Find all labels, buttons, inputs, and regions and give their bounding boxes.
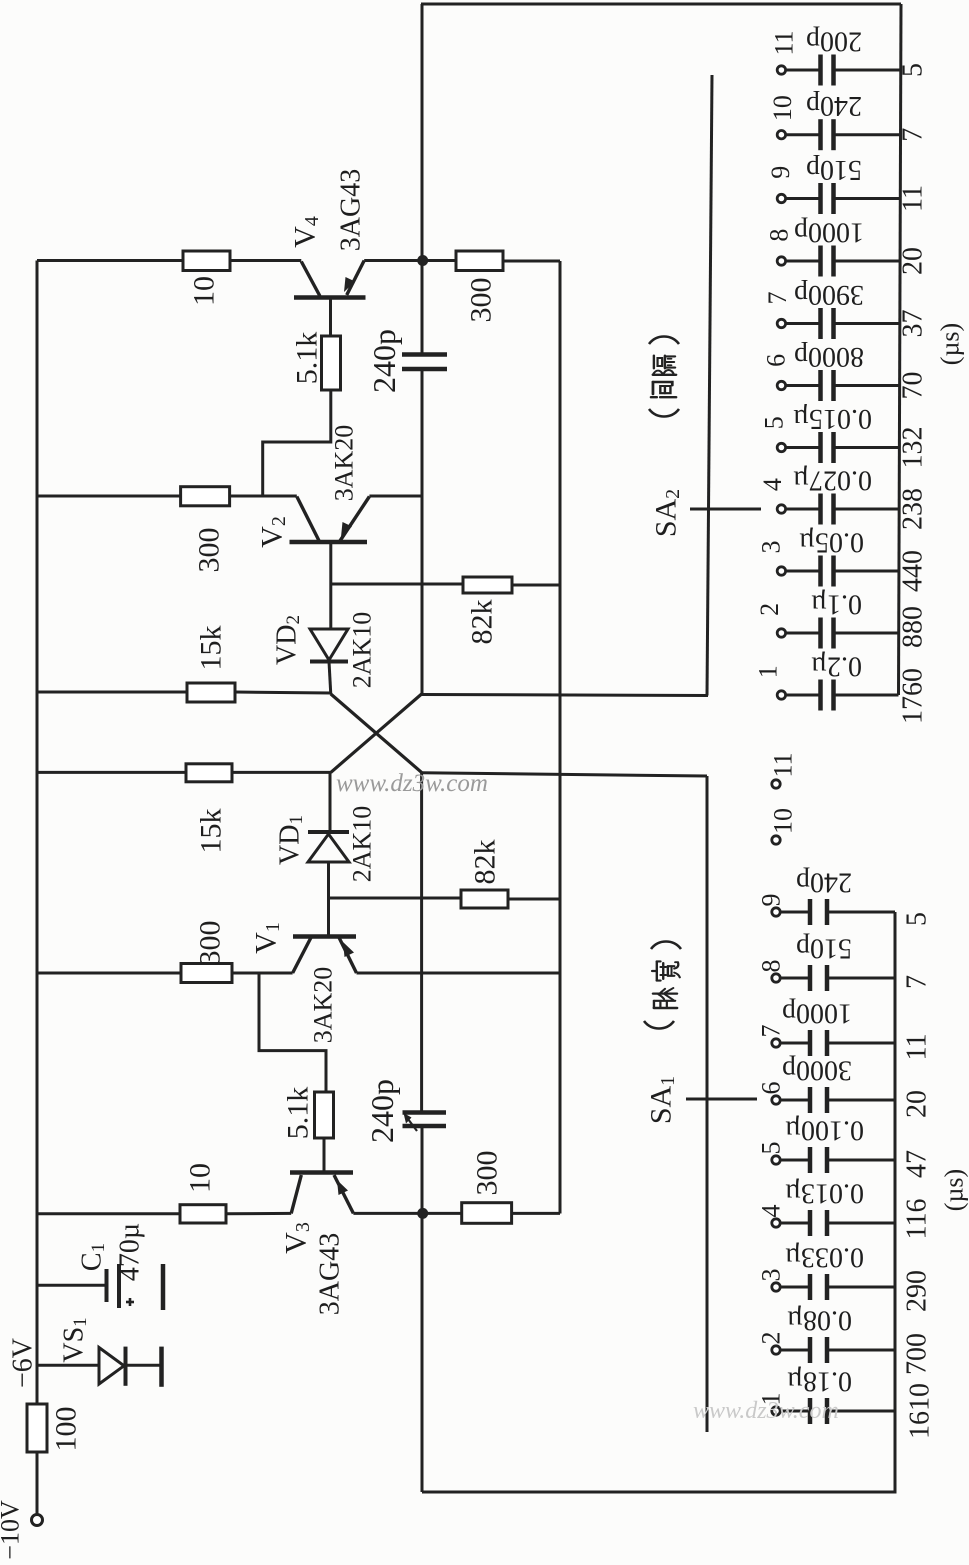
svg-text:300: 300 xyxy=(471,1151,504,1196)
svg-text:11: 11 xyxy=(902,1034,933,1061)
svg-text:20: 20 xyxy=(902,1090,933,1118)
svg-text:47: 47 xyxy=(902,1150,933,1178)
svg-text:238: 238 xyxy=(898,488,929,530)
svg-text:0.1µ: 0.1µ xyxy=(811,589,862,620)
svg-text:5: 5 xyxy=(898,63,929,77)
svg-text:2AK10: 2AK10 xyxy=(348,806,377,883)
svg-text:70: 70 xyxy=(898,372,929,400)
svg-text:8: 8 xyxy=(757,960,786,973)
svg-text:3AG43: 3AG43 xyxy=(315,1233,346,1315)
svg-text:300: 300 xyxy=(193,528,226,573)
svg-text:5: 5 xyxy=(757,1142,786,1155)
svg-text:0.08µ: 0.08µ xyxy=(787,1305,852,1336)
svg-text:11: 11 xyxy=(898,185,929,212)
svg-text:5: 5 xyxy=(902,912,933,926)
svg-text:880: 880 xyxy=(898,606,929,648)
svg-text:15k: 15k xyxy=(195,809,228,854)
svg-text:www.dz3w.com: www.dz3w.com xyxy=(336,770,488,797)
svg-text:10: 10 xyxy=(769,808,798,834)
svg-text:240p: 240p xyxy=(796,867,852,898)
svg-text:240p: 240p xyxy=(806,90,862,121)
svg-text:−6V: −6V xyxy=(8,1338,39,1388)
svg-text:8: 8 xyxy=(765,229,794,242)
svg-text:2: 2 xyxy=(757,1332,786,1345)
svg-text:200p: 200p xyxy=(806,26,862,57)
svg-text:8000p: 8000p xyxy=(794,341,864,372)
svg-text:240p: 240p xyxy=(366,329,402,393)
svg-text:7: 7 xyxy=(763,292,792,305)
svg-text:3: 3 xyxy=(757,1269,786,1282)
svg-text:510p: 510p xyxy=(806,154,862,185)
svg-text:7: 7 xyxy=(902,975,933,989)
svg-text:3AK20: 3AK20 xyxy=(309,967,338,1044)
svg-text:240p: 240p xyxy=(364,1079,400,1143)
svg-text:5: 5 xyxy=(760,416,789,429)
svg-text:700: 700 xyxy=(902,1333,933,1375)
svg-text:4: 4 xyxy=(758,478,787,491)
svg-text:100: 100 xyxy=(50,1407,83,1452)
svg-text:3AK20: 3AK20 xyxy=(330,425,359,502)
svg-text:0.027µ: 0.027µ xyxy=(793,465,872,496)
svg-text:5.1k: 5.1k xyxy=(282,1087,315,1140)
svg-text:9: 9 xyxy=(757,894,786,907)
svg-text:www.dz3w.com: www.dz3w.com xyxy=(693,1398,839,1424)
svg-text:82k: 82k xyxy=(466,600,499,645)
svg-text:3000p: 3000p xyxy=(782,1055,852,1086)
svg-text:0.18µ: 0.18µ xyxy=(787,1366,852,1397)
svg-text:20: 20 xyxy=(898,247,929,275)
svg-text:2AK10: 2AK10 xyxy=(348,612,377,689)
svg-text:11: 11 xyxy=(769,752,798,777)
svg-text:470µ: 470µ xyxy=(115,1223,146,1281)
svg-text:0.015µ: 0.015µ xyxy=(793,403,872,434)
svg-text:300: 300 xyxy=(465,278,498,323)
svg-text:0.033µ: 0.033µ xyxy=(785,1242,864,1273)
svg-text:132: 132 xyxy=(898,427,929,469)
svg-text:5.1k: 5.1k xyxy=(291,332,324,385)
svg-text:6: 6 xyxy=(761,354,790,367)
svg-text:10: 10 xyxy=(188,276,221,306)
svg-text:1000p: 1000p xyxy=(794,217,864,248)
svg-text:1: 1 xyxy=(753,665,782,678)
svg-text:37: 37 xyxy=(898,310,929,338)
svg-text:300: 300 xyxy=(194,921,227,966)
svg-text:4: 4 xyxy=(757,1205,786,1218)
svg-text:0.100µ: 0.100µ xyxy=(785,1115,864,1146)
svg-text:−10V: −10V xyxy=(0,1500,25,1560)
svg-text:10: 10 xyxy=(184,1163,217,1193)
svg-text:6: 6 xyxy=(757,1082,786,1095)
svg-text:1000p: 1000p xyxy=(782,998,852,1029)
svg-text:116: 116 xyxy=(902,1199,933,1240)
svg-text:1760: 1760 xyxy=(898,668,929,724)
svg-text:510p: 510p xyxy=(796,933,852,964)
svg-text:(µs): (µs) xyxy=(940,1169,969,1211)
svg-text:10: 10 xyxy=(768,95,797,121)
svg-text:(µs): (µs) xyxy=(936,323,965,365)
svg-text:0.2µ: 0.2µ xyxy=(811,651,862,682)
svg-text:0.05µ: 0.05µ xyxy=(799,527,864,558)
svg-text:440: 440 xyxy=(898,550,929,592)
svg-text:9: 9 xyxy=(766,166,795,179)
svg-text:3900p: 3900p xyxy=(794,279,864,310)
svg-text:15k: 15k xyxy=(195,626,228,671)
svg-text:11: 11 xyxy=(770,30,799,55)
svg-text:0.013µ: 0.013µ xyxy=(785,1178,864,1209)
svg-text:3: 3 xyxy=(756,541,785,554)
svg-text:7: 7 xyxy=(898,128,929,142)
svg-text:3AG43: 3AG43 xyxy=(336,169,367,251)
svg-text:290: 290 xyxy=(902,1270,933,1312)
svg-text:2: 2 xyxy=(755,603,784,616)
svg-text:7: 7 xyxy=(757,1025,786,1038)
svg-text:82k: 82k xyxy=(469,840,502,885)
svg-text:1610: 1610 xyxy=(905,1383,936,1439)
